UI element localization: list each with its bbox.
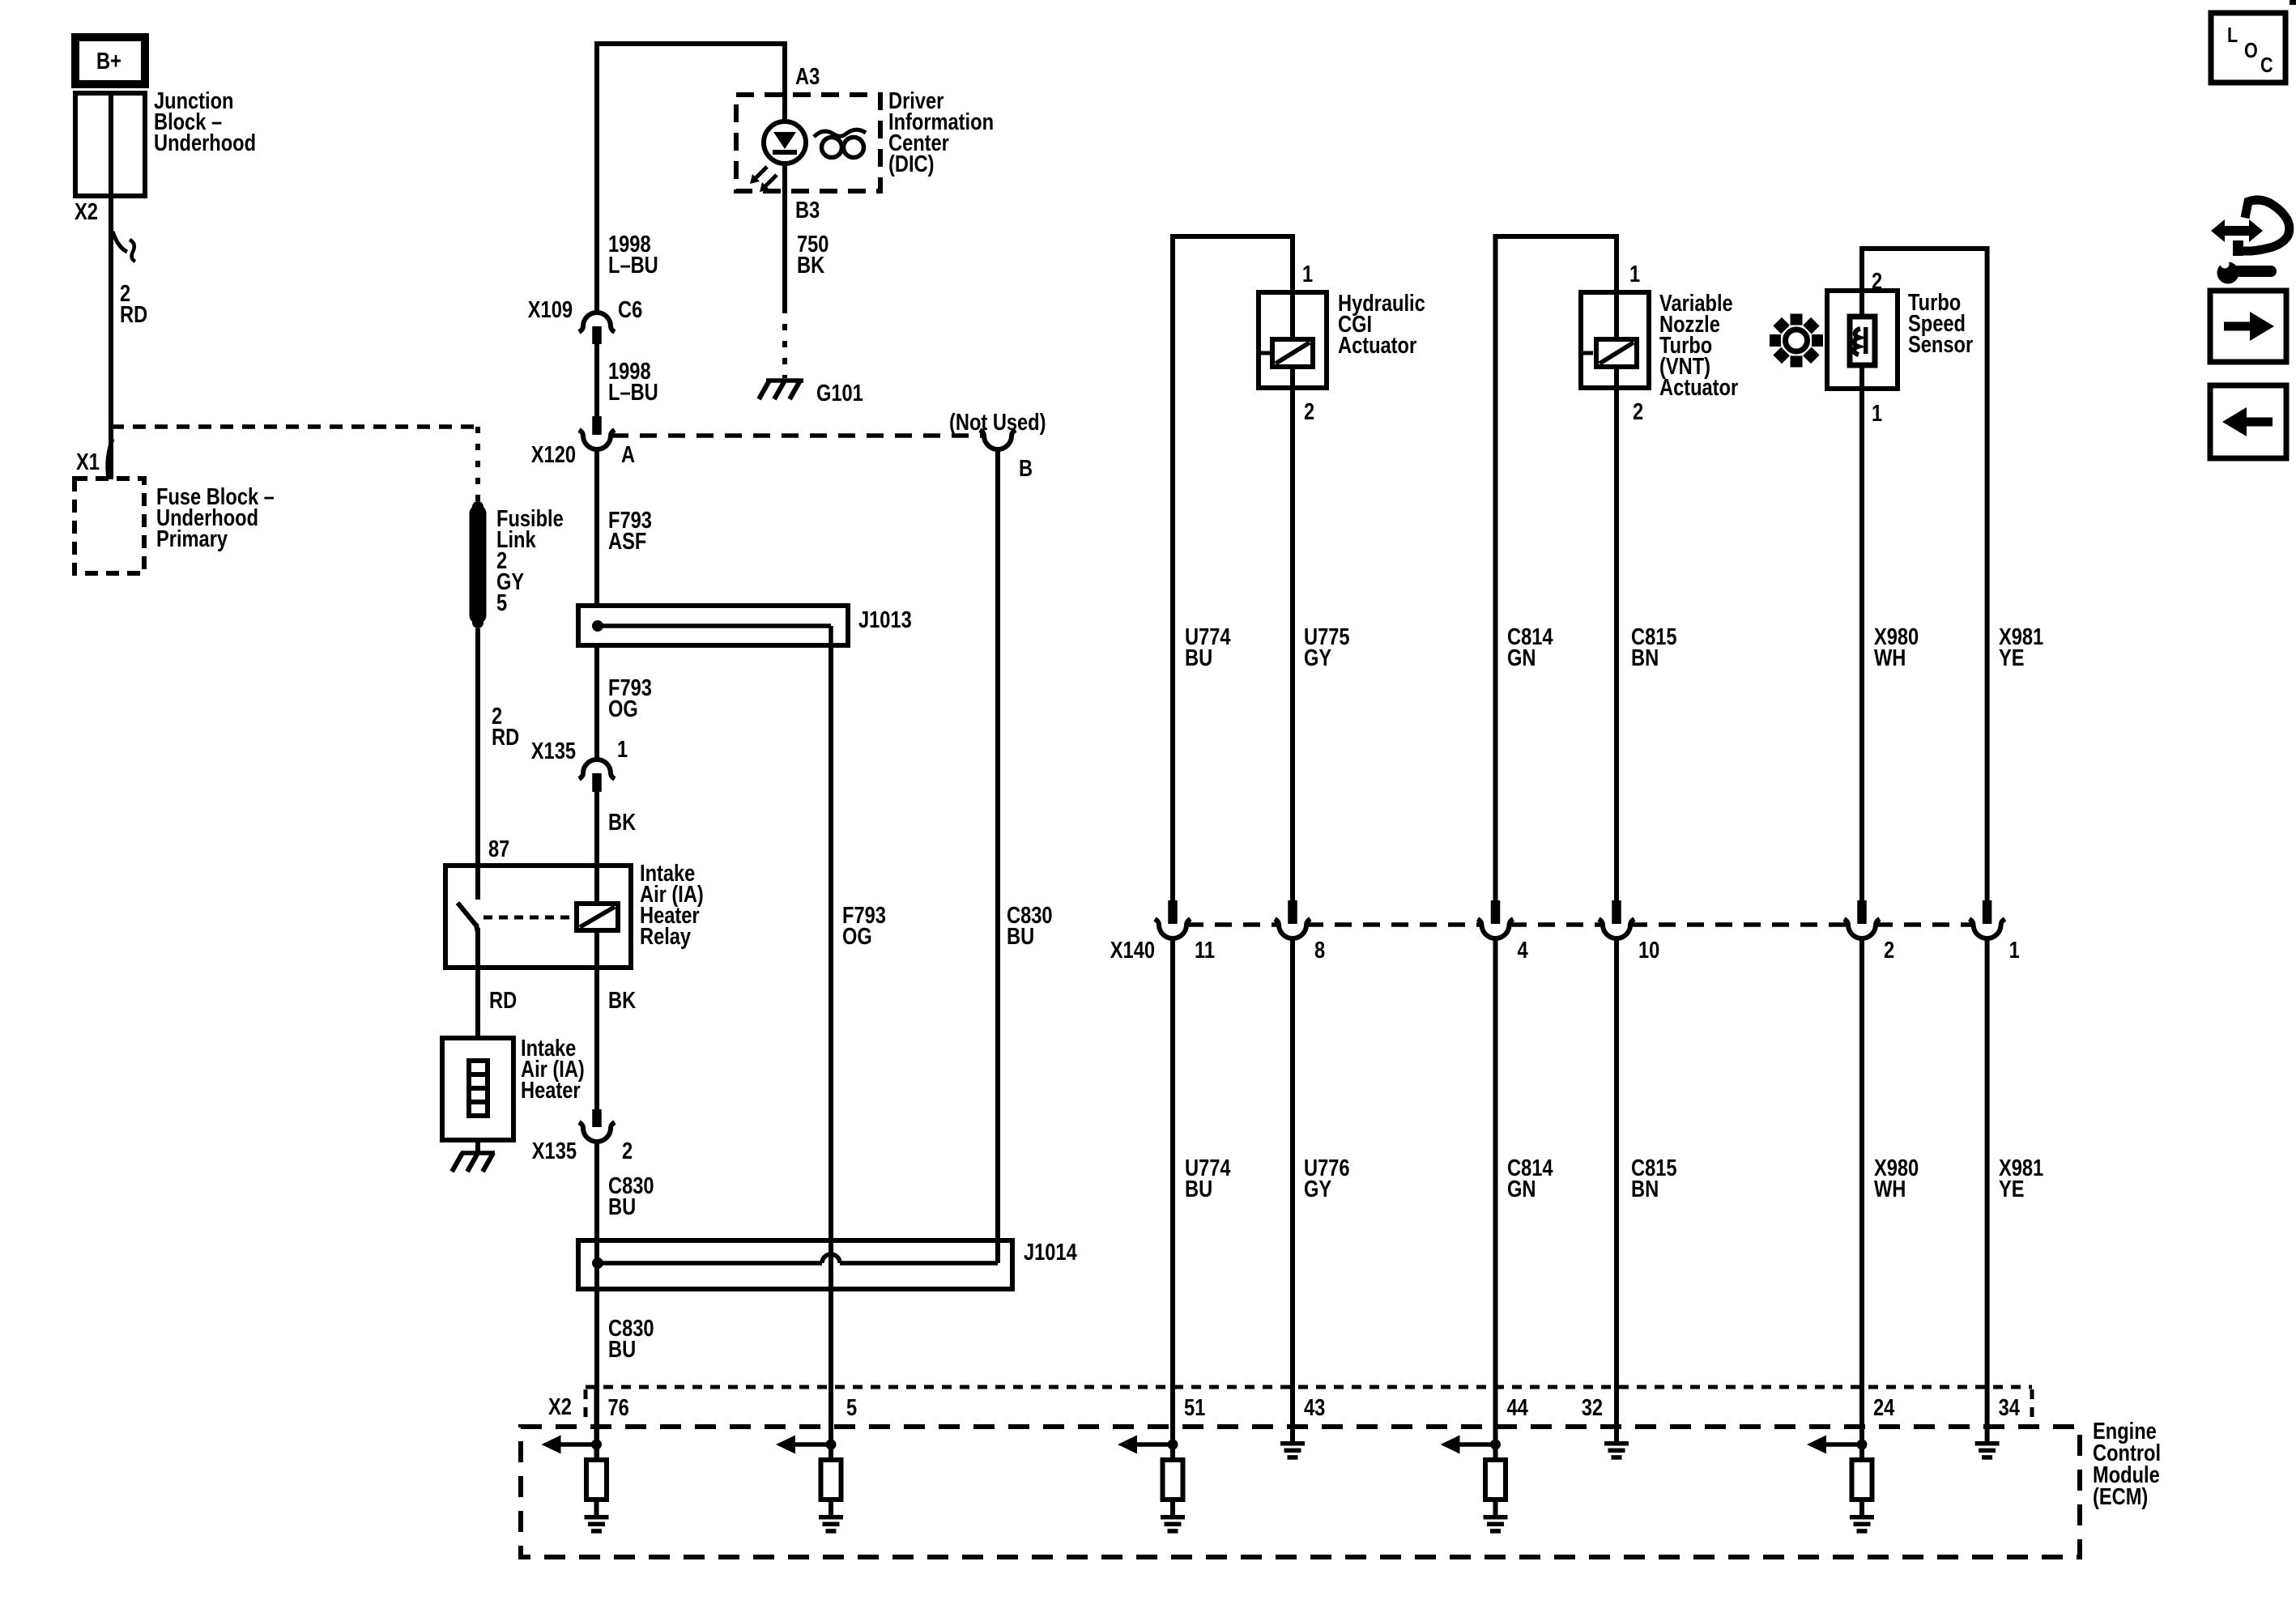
svg-text:X2: X2 <box>75 198 98 225</box>
svg-text:2: 2 <box>1633 398 1643 425</box>
svg-text:B: B <box>1019 455 1033 482</box>
svg-text:OG: OG <box>608 696 638 722</box>
svg-text:GN: GN <box>1507 645 1536 671</box>
svg-text:BK: BK <box>797 252 824 279</box>
svg-text:BU: BU <box>608 1193 636 1220</box>
svg-text:J1013: J1013 <box>858 606 912 633</box>
svg-text:5: 5 <box>496 589 507 616</box>
svg-text:24: 24 <box>1873 1394 1895 1421</box>
svg-text:1: 1 <box>1872 400 1882 427</box>
svg-text:1: 1 <box>2009 937 2020 964</box>
svg-text:(Not Used): (Not Used) <box>949 409 1046 436</box>
svg-text:ASF: ASF <box>608 528 646 555</box>
svg-text:A3: A3 <box>795 63 820 90</box>
svg-text:10: 10 <box>1638 937 1659 964</box>
svg-text:Primary: Primary <box>156 525 228 552</box>
svg-text:X2: X2 <box>548 1393 572 1420</box>
svg-text:43: 43 <box>1304 1394 1325 1421</box>
svg-text:X120: X120 <box>531 441 576 468</box>
svg-text:BU: BU <box>1007 923 1034 950</box>
svg-text:C6: C6 <box>618 296 642 323</box>
svg-text:2: 2 <box>622 1138 633 1164</box>
svg-text:X135: X135 <box>532 1138 577 1164</box>
svg-text:X109: X109 <box>528 296 573 323</box>
svg-text:BK: BK <box>608 809 636 836</box>
svg-text:8: 8 <box>1314 937 1325 964</box>
svg-text:A: A <box>621 441 635 468</box>
svg-text:4: 4 <box>1518 937 1529 964</box>
svg-text:Heater: Heater <box>521 1077 581 1104</box>
svg-text:RD: RD <box>492 724 519 751</box>
svg-text:5: 5 <box>846 1394 857 1421</box>
svg-text:1: 1 <box>1302 261 1313 287</box>
svg-text:WH: WH <box>1874 1176 1906 1202</box>
svg-text:51: 51 <box>1184 1394 1205 1421</box>
svg-text:G101: G101 <box>816 380 863 406</box>
svg-text:76: 76 <box>608 1394 629 1421</box>
svg-text:1: 1 <box>617 736 628 763</box>
svg-text:B3: B3 <box>795 197 820 223</box>
svg-text:Sensor: Sensor <box>1908 331 1973 358</box>
svg-text:O: O <box>2244 39 2258 62</box>
svg-text:WH: WH <box>1874 645 1906 671</box>
svg-text:Actuator: Actuator <box>1338 332 1416 359</box>
svg-text:X1: X1 <box>76 449 100 475</box>
svg-text:BU: BU <box>608 1336 636 1363</box>
svg-text:RD: RD <box>489 987 517 1014</box>
svg-text:L–BU: L–BU <box>608 252 658 279</box>
svg-text:32: 32 <box>1582 1394 1603 1421</box>
svg-text:Actuator: Actuator <box>1659 374 1738 401</box>
svg-text:C: C <box>2260 53 2273 77</box>
svg-text:J1014: J1014 <box>1024 1239 1077 1266</box>
svg-text:L: L <box>2227 23 2238 47</box>
svg-text:(ECM): (ECM) <box>2093 1483 2148 1510</box>
svg-text:87: 87 <box>488 836 509 862</box>
svg-text:B+: B+ <box>96 48 121 74</box>
svg-text:YE: YE <box>1999 645 2025 671</box>
svg-text:X135: X135 <box>531 738 576 764</box>
svg-text:OG: OG <box>842 923 872 950</box>
svg-text:RD: RD <box>120 301 147 328</box>
svg-text:L–BU: L–BU <box>608 379 658 406</box>
svg-text:GN: GN <box>1507 1176 1536 1202</box>
svg-text:BK: BK <box>608 987 636 1014</box>
svg-text:34: 34 <box>1999 1394 2021 1421</box>
svg-text:GY: GY <box>1304 645 1332 671</box>
svg-text:GY: GY <box>1304 1176 1332 1202</box>
svg-text:44: 44 <box>1507 1394 1529 1421</box>
svg-text:Relay: Relay <box>640 923 691 950</box>
svg-text:2: 2 <box>1884 937 1894 964</box>
svg-text:BN: BN <box>1631 1176 1659 1202</box>
svg-text:1: 1 <box>1629 261 1640 287</box>
svg-text:BU: BU <box>1185 645 1212 671</box>
svg-text:X140: X140 <box>1110 937 1155 964</box>
svg-text:11: 11 <box>1195 937 1215 964</box>
svg-text:Underhood: Underhood <box>154 130 256 156</box>
svg-text:2: 2 <box>1304 398 1314 425</box>
svg-text:BU: BU <box>1185 1176 1212 1202</box>
svg-text:YE: YE <box>1999 1176 2025 1202</box>
svg-text:(DIC): (DIC) <box>888 151 934 177</box>
svg-text:BN: BN <box>1631 645 1659 671</box>
